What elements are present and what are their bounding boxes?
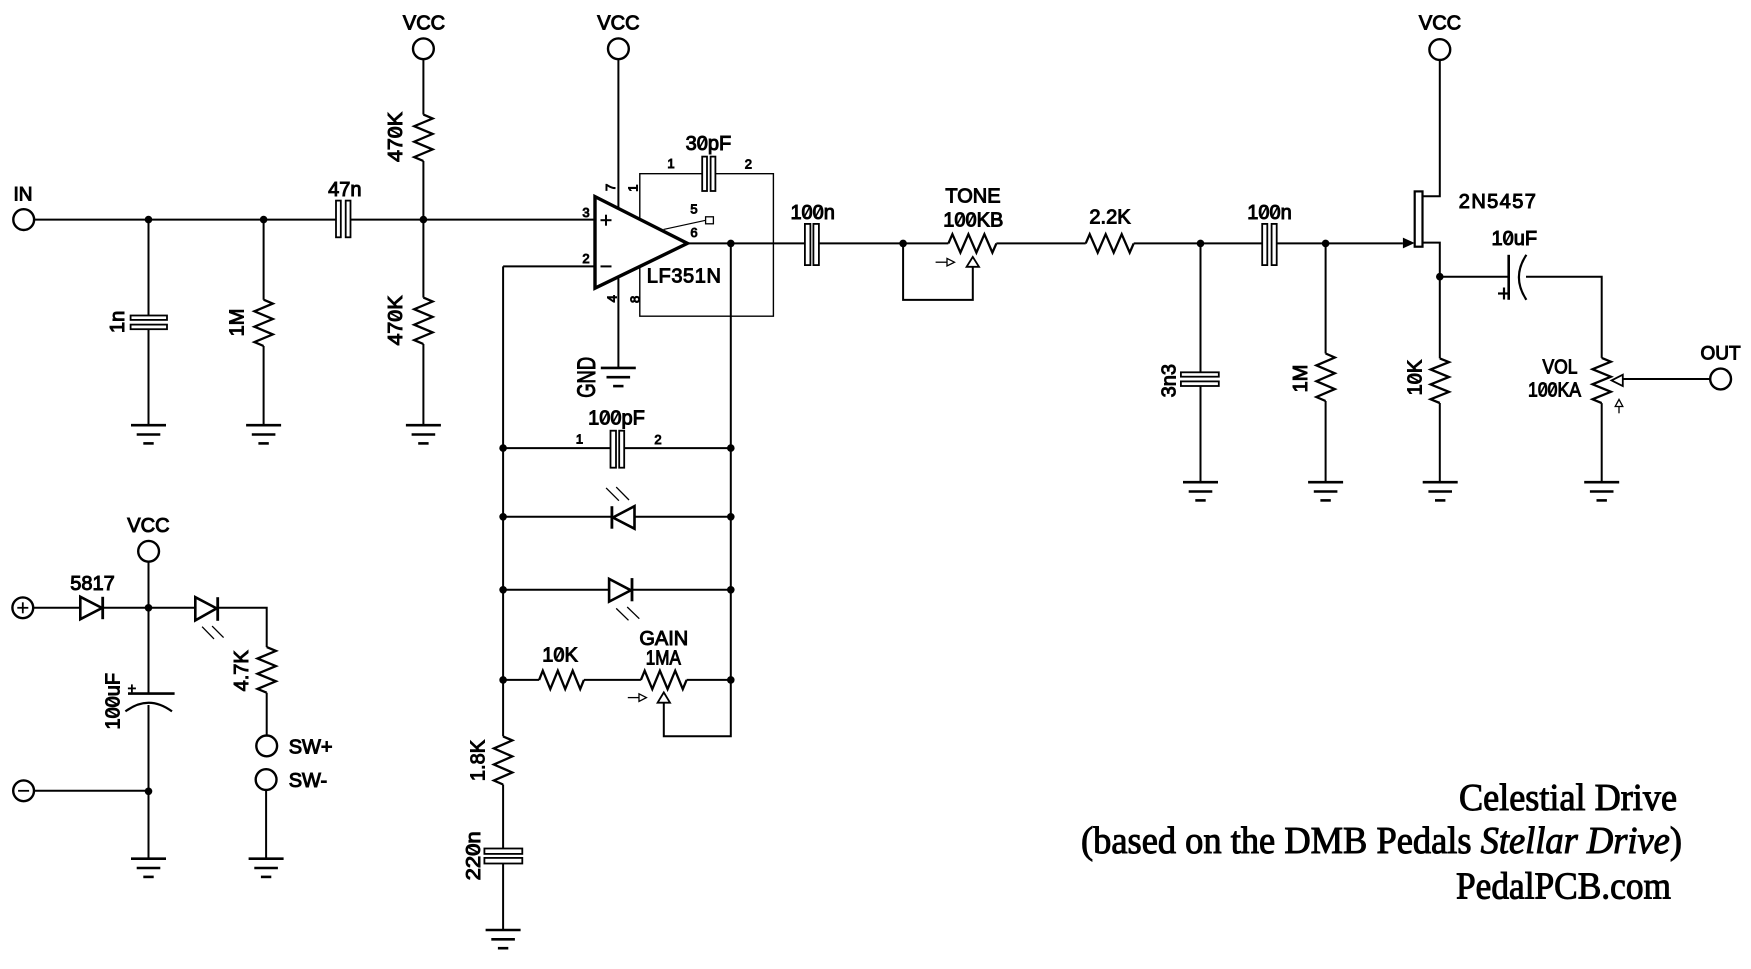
wire row2 right (635, 516, 731, 518)
wire 2.2K to 100n (1134, 242, 1263, 244)
svg-text:2: 2 (745, 157, 752, 172)
capacitor 100uF (filter, polarized) (148, 608, 150, 694)
svg-text:3n3: 3n3 (1159, 364, 1181, 397)
svg-text:1: 1 (576, 432, 583, 447)
svg-text:2: 2 (654, 432, 661, 447)
svg-text:VOL: VOL (1543, 357, 1578, 379)
terminal SW- (256, 769, 277, 790)
junction IN/1M (260, 216, 268, 224)
terminal VCC (bias) (413, 38, 434, 59)
pin 4 label (605, 295, 620, 302)
potentiometer TONE 100KB (948, 234, 996, 252)
op-amp U1 LF351N triangle (595, 197, 687, 289)
svg-text:100KB: 100KB (943, 210, 1003, 232)
terminal IN (13, 209, 34, 230)
junction row2 right (727, 513, 735, 521)
capacitor 3n3 (1200, 243, 1202, 372)
svg-text:1M: 1M (227, 309, 249, 337)
wire right rail down (730, 243, 732, 680)
svg-text:GND: GND (573, 357, 601, 398)
wire - to supply ground node (34, 790, 149, 792)
LED rays (D4) (202, 626, 224, 639)
svg-text:LF351N: LF351N (647, 266, 722, 288)
svg-text:100uF: 100uF (103, 673, 125, 730)
resistor 10K (source) (1431, 358, 1449, 403)
svg-text:TONE: TONE (945, 186, 1000, 208)
junction row2 left (499, 513, 507, 521)
terminal OUT (1710, 369, 1731, 390)
svg-text:1n: 1n (107, 311, 129, 333)
ground (1n) (131, 425, 166, 443)
capacitor 1n (148, 220, 150, 316)
junction supply node (145, 604, 153, 612)
op-amp plus input mark (601, 215, 612, 226)
ground (10K source) (1423, 482, 1458, 500)
svg-text:3: 3 (582, 205, 589, 220)
junction source node (1436, 273, 1444, 281)
capacitor 47n (336, 201, 351, 238)
pin 7 label (603, 184, 618, 191)
junction row1 left (499, 444, 507, 452)
svg-text:VCC: VCC (1419, 12, 1461, 34)
wire drain to VCC (1423, 60, 1440, 196)
ground (VOL) (1584, 482, 1619, 500)
junction bias node (420, 216, 428, 224)
wire row3 left (503, 589, 609, 591)
wire GAIN wiper loop (664, 680, 731, 736)
svg-text:30pF: 30pF (686, 133, 732, 155)
capacitor 10uF (output, polarized) (1440, 276, 1509, 278)
wire LED to 4.7K (218, 608, 267, 647)
wire 100n to JFET gate (1277, 242, 1403, 244)
resistor 470K (upper bias) (414, 115, 432, 161)
wire row3 right (632, 589, 731, 591)
pin 8 label (628, 296, 643, 303)
svg-text:5: 5 (690, 202, 697, 217)
ground (3n3) (1183, 482, 1218, 500)
svg-text:1: 1 (626, 184, 641, 191)
junction row1 right (727, 444, 735, 452)
wire 5817 to LED (103, 607, 195, 609)
svg-text:1M: 1M (1290, 365, 1312, 393)
svg-text:PedalPCB.com: PedalPCB.com (1456, 866, 1671, 908)
100uF plus mark (128, 684, 136, 692)
terminal - (DC jack negative) (13, 780, 34, 801)
diode D4 (indicator LED) (195, 597, 216, 620)
wire 10uF to VOL (1526, 277, 1602, 358)
svg-text:470K: 470K (385, 295, 407, 346)
LED rays (D3) (616, 607, 639, 620)
svg-text:100pF: 100pF (588, 408, 645, 430)
capacitor 100n (to JFET) (1262, 224, 1277, 265)
potentiometer GAIN 1MA (641, 671, 687, 689)
resistor 1M (input) (263, 220, 265, 300)
LED rays (D2) (606, 487, 629, 501)
capacitor 220n (484, 849, 522, 864)
wire VOL wiper to OUT (1623, 378, 1710, 380)
svg-text:1.8K: 1.8K (468, 739, 490, 781)
ground (1M input) (246, 425, 281, 443)
GAIN wiper triangle (658, 692, 670, 702)
svg-text:7: 7 (603, 184, 618, 191)
wire 470K upper to node (422, 161, 424, 220)
svg-text:5817: 5817 (70, 573, 115, 595)
junction output node (727, 240, 735, 248)
junction IN/1n (145, 216, 153, 224)
svg-text:100n: 100n (790, 202, 835, 224)
svg-text:4.7K: 4.7K (231, 650, 253, 692)
wire VCC to supply node (148, 562, 150, 608)
svg-text:Celestial Drive: Celestial Drive (1459, 777, 1677, 819)
svg-text:SW+: SW+ (289, 737, 333, 759)
wire 100uF to ground (148, 705, 150, 859)
junction 3n3 node (1197, 240, 1205, 248)
resistor 2.2K (1086, 234, 1134, 252)
transistor Q1 2N5457 channel bar (1415, 191, 1423, 246)
svg-text:100n: 100n (1247, 202, 1292, 224)
svg-text:8: 8 (628, 296, 643, 303)
svg-text:2N5457: 2N5457 (1459, 191, 1537, 213)
wire 10K to GAIN (584, 679, 641, 681)
wire row4 left (503, 679, 539, 681)
wire row1 right (624, 447, 731, 449)
diode D2 (clipping LED, cathode left) (611, 506, 614, 529)
svg-text:OUT: OUT (1701, 344, 1742, 365)
svg-text:10K: 10K (1405, 359, 1427, 395)
potentiometer VOL 100KA (1593, 358, 1611, 403)
svg-text:220n: 220n (463, 831, 485, 880)
svg-text:470K: 470K (385, 111, 407, 162)
wire row1 left (503, 447, 610, 449)
resistor 10K (gain) (539, 671, 584, 689)
wire TONE wiper loop (903, 243, 973, 300)
wire 220n to ground (502, 864, 504, 931)
junction 1M gate node (1322, 240, 1330, 248)
TONE wiper direction arrow (936, 258, 955, 266)
wire 100n to TONE (819, 242, 948, 244)
svg-text:VCC: VCC (597, 12, 639, 34)
svg-text:10K: 10K (542, 645, 578, 667)
10uF plus mark (1498, 288, 1510, 300)
wire IN to 47n (34, 219, 336, 221)
wire GAIN to right rail (687, 679, 731, 681)
wire op-amp output to 100n (687, 242, 805, 244)
ground (220n) (486, 930, 521, 948)
diode D1 5817 (Schottky) (80, 597, 102, 619)
svg-text:1MA: 1MA (646, 648, 682, 670)
terminal SW+ (256, 736, 277, 757)
wire pin 2 left (503, 265, 595, 267)
svg-text:2.2K: 2.2K (1089, 207, 1131, 229)
wire left rail down (502, 266, 504, 736)
svg-text:VCC: VCC (127, 515, 169, 537)
resistor 470K (lower bias) (422, 220, 424, 298)
capacitor 100n (output) (805, 224, 819, 265)
terminal VCC (JFET) (1429, 39, 1450, 60)
terminal + (DC jack positive) (12, 597, 33, 618)
TONE wiper triangle (967, 257, 979, 267)
wire source down (1423, 243, 1440, 359)
resistor 1.8K (494, 736, 512, 784)
ground (SW-) (249, 859, 284, 877)
junction TONE wiper tie (899, 240, 907, 248)
diode D3 (clipping LED, cathode right) (609, 579, 631, 602)
svg-text:47n: 47n (328, 179, 361, 201)
wire VCC to 470K upper (422, 59, 424, 114)
svg-text:IN: IN (14, 185, 33, 206)
svg-text:4: 4 (605, 295, 620, 302)
VOL wiper triangle (1612, 375, 1623, 386)
ground (supply) (131, 859, 166, 877)
VOL wiper direction arrow (1615, 399, 1623, 413)
svg-text:100KA: 100KA (1528, 380, 1582, 402)
wire SW- to ground (265, 790, 267, 859)
wire VOL to ground (1601, 403, 1603, 482)
junction row4 left (499, 676, 507, 684)
terminal VCC (op-amp) (608, 38, 629, 59)
wire pin 7 to VCC (617, 59, 619, 208)
svg-text:VCC: VCC (403, 12, 445, 34)
svg-text:(based on the DMB Pedals Stell: (based on the DMB Pedals Stellar Drive) (1081, 820, 1682, 862)
wire + to 5817 (33, 607, 80, 609)
wire 47n to op-amp pin3 (351, 219, 596, 221)
junction minus node (145, 788, 153, 796)
wire pin 4 to GND (617, 278, 619, 368)
wire 1.8K to 220n (502, 785, 504, 849)
junction row4 right (727, 676, 735, 684)
svg-text:10uF: 10uF (1492, 228, 1538, 250)
svg-text:6: 6 (690, 225, 697, 240)
svg-text:SW-: SW- (289, 770, 328, 792)
wire TONE to 2.2K (996, 242, 1085, 244)
ground (1M gate) (1308, 482, 1343, 500)
ground (bias divider) (406, 425, 441, 443)
GND label (573, 357, 601, 398)
junction row3 right (727, 586, 735, 594)
wire row2 left (503, 516, 612, 518)
wire 4.7K to SW+ (266, 693, 268, 736)
pin 5 stub and no-connect square (664, 220, 706, 229)
resistor 1M (gate) (1325, 243, 1327, 353)
svg-text:2: 2 (582, 251, 589, 266)
transistor Q1 2N5457 gate arrow (1403, 238, 1415, 249)
op-amp minus input mark (601, 265, 612, 267)
GAIN wiper direction arrow (628, 694, 647, 702)
junction row3 left (499, 586, 507, 594)
capacitor 30pF (702, 157, 715, 191)
pin 1 label (626, 184, 641, 191)
ground (op-amp pin 4) (601, 368, 636, 386)
op-amp U1 feedback box (pins 1-8 outline) (640, 174, 774, 317)
capacitor 100pF (611, 431, 625, 468)
resistor 4.7K (258, 647, 276, 693)
terminal VCC (supply) (138, 541, 159, 562)
svg-text:1: 1 (667, 156, 674, 171)
